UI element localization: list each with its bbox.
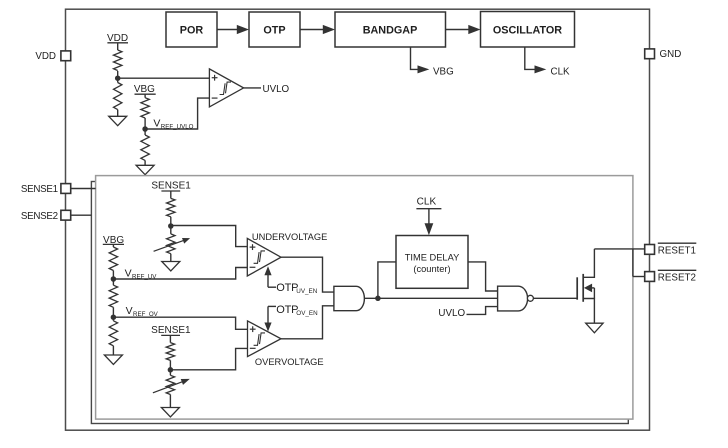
and-gate U4 [334, 286, 364, 310]
node C junction lower divider tap [168, 367, 174, 373]
wire R9 to ground [112, 346, 114, 355]
block OSCILLATOR [481, 12, 575, 48]
wire node C to OVERVOLTAGE comparator minus input [170, 348, 247, 369]
wire R4 to ground [144, 160, 146, 165]
resistor R6 adjustable upper divider [154, 234, 191, 254]
wire Q1 source [583, 299, 594, 324]
label OTP_OV_EN [276, 304, 318, 317]
wire UNDERVOLTAGE output to AND gate [281, 257, 334, 292]
label VREF_UVLO [153, 117, 193, 130]
svg-text:SENSE1: SENSE1 [21, 184, 58, 195]
wire SENSE1 pin to channel box [71, 188, 96, 190]
op-amp U3 OVERVOLTAGE comparator [248, 321, 282, 357]
svg-text:SENSE1: SENSE1 [151, 181, 191, 192]
pin VDD [35, 51, 70, 62]
op-amp U2 UNDERVOLTAGE comparator [247, 238, 281, 276]
wire R3 to node VREF_UVLO [144, 118, 146, 135]
wire arrow CLK into TIME DELAY [425, 209, 434, 236]
svg-text:OTP: OTP [276, 282, 298, 294]
wire VBG label to R3 [144, 94, 146, 98]
svg-text:CLK: CLK [417, 196, 437, 207]
svg-text:UVLO: UVLO [438, 308, 465, 319]
block OTP [249, 12, 300, 47]
wire UVLO to NAND bottom input [467, 307, 498, 315]
svg-text:V: V [126, 305, 133, 317]
back channel box (SENSE2) [91, 182, 628, 424]
label VREF_OV [126, 305, 159, 318]
wire R11 to ground [169, 395, 171, 408]
svg-text:UVLO: UVLO [263, 84, 290, 95]
ground below R6 [162, 262, 180, 271]
wire R8 to node VREF_OV [112, 307, 114, 321]
resistor R7 VBG to VREF_UV [109, 247, 117, 271]
wire VBG label to R7 [112, 244, 114, 247]
svg-text:VBG: VBG [433, 66, 454, 77]
svg-text:VDD: VDD [35, 51, 56, 62]
wire node D to TIME DELAY input [378, 262, 396, 298]
wire R2 to ground [117, 110, 119, 117]
wire VREF_OV to OVERVOLTAGE comparator plus input [113, 317, 247, 329]
op-amp U1 UVLO comparator [209, 69, 243, 107]
node A junction VDD divider [115, 75, 121, 81]
wire RESET1 node down to RESET2 [632, 249, 634, 277]
svg-text:OV_EN: OV_EN [296, 310, 318, 317]
pin SENSE1 [21, 184, 71, 196]
block POR [166, 12, 217, 47]
svg-text:OTP: OTP [263, 24, 285, 36]
node VBG net label (UVLO ref) [134, 84, 156, 95]
IC boundary outer box [66, 9, 650, 430]
wire R5 to node B [170, 217, 172, 234]
pin GND [645, 49, 682, 60]
svg-text:(counter): (counter) [413, 264, 450, 274]
svg-text:UNDERVOLTAGE: UNDERVOLTAGE [252, 232, 327, 242]
pin SENSE2 [21, 210, 71, 222]
svg-text:OSCILLATOR: OSCILLATOR [493, 24, 562, 36]
wire arrow OTP to BANDGAP [300, 25, 335, 34]
resistor R1 VDD divider top [114, 50, 122, 71]
wire Q1 drain [583, 249, 594, 277]
label CLK output [551, 66, 571, 77]
front channel box (SENSE1) [96, 176, 633, 420]
ground below Q1 source [586, 323, 603, 333]
svg-text:UV_EN: UV_EN [296, 288, 317, 295]
pin RESET2 (active low) [645, 270, 697, 283]
wire VDD label to R1 [117, 43, 119, 50]
wire node A to UVLO comparator plus input [118, 77, 210, 79]
resistor R9 VREF_OV to ground [109, 321, 117, 346]
wire arrow BANDGAP to OSCILLATOR [446, 25, 481, 34]
wire NAND output to MOSFET gate [534, 297, 578, 299]
label UVLO input [438, 308, 465, 319]
wire R6 to ground [170, 254, 172, 262]
node VDD net label [107, 33, 128, 44]
svg-text:POR: POR [180, 24, 204, 36]
label VBG output [433, 66, 454, 77]
resistor R4 VREF_UVLO to ground [141, 135, 149, 160]
resistor R8 VREF_UV to VREF_OV [109, 285, 117, 307]
wire arrow OTP_OV_EN into U3 [264, 306, 276, 331]
node SENSE1 net label lower [151, 325, 191, 336]
ground below R9 [104, 355, 122, 364]
wire R1 to node A [117, 71, 119, 83]
svg-text:SENSE1: SENSE1 [151, 325, 191, 336]
resistor R5 SENSE1 upper divider [167, 198, 175, 216]
transistor Q1 NMOS gate bar [576, 277, 578, 299]
block TIME DELAY (counter) [396, 236, 468, 289]
node VREF_OV junction [111, 314, 117, 320]
svg-text:SENSE2: SENSE2 [21, 211, 58, 222]
wire TIME DELAY output to NAND top input [468, 262, 498, 291]
transistor Q1 channel bar [582, 274, 584, 302]
wire SENSE2 pin to back channel box [71, 214, 91, 216]
svg-text:BANDGAP: BANDGAP [363, 24, 418, 36]
svg-text:RESET1: RESET1 [658, 245, 696, 256]
svg-text:V: V [153, 117, 160, 129]
node VREF_UV junction [111, 276, 117, 282]
resistor R3 VBG to VREF_UVLO [141, 98, 149, 118]
wire SENSE1 lower label to R10 [169, 335, 171, 342]
node B junction upper divider tap [168, 223, 174, 229]
block BANDGAP [335, 12, 446, 47]
label UNDERVOLTAGE [252, 232, 327, 242]
svg-text:RESET2: RESET2 [658, 272, 696, 283]
wire AND output to NAND middle input [364, 297, 497, 299]
pin RESET1 (active low) [645, 243, 697, 256]
wire VREF_UV to UNDERVOLTAGE comparator minus input [113, 268, 247, 280]
wire node B to UNDERVOLTAGE comparator plus input [171, 226, 248, 247]
label OTP_UV_EN [276, 282, 317, 295]
node VREF_UVLO junction [142, 126, 148, 132]
wire SENSE1 label to R5 [170, 191, 172, 198]
wire VREF_UVLO to UVLO comparator minus input [145, 98, 209, 129]
svg-text:CLK: CLK [551, 66, 571, 77]
wire arrow OTP_UV_EN into U2 [264, 266, 276, 287]
nand-gate U5 [498, 286, 534, 311]
svg-text:V: V [125, 268, 132, 280]
resistor R11 adjustable lower divider [153, 375, 190, 394]
wire arrow POR to OTP [217, 25, 249, 34]
svg-text:TIME DELAY: TIME DELAY [405, 252, 460, 262]
node SENSE1 net label upper [151, 181, 191, 192]
resistor R2 VDD divider bottom [114, 83, 122, 110]
resistor R10 SENSE1 lower divider [166, 343, 174, 361]
svg-text:OVERVOLTAGE: OVERVOLTAGE [255, 357, 324, 367]
label VREF_UV [125, 268, 158, 281]
svg-text:GND: GND [660, 49, 682, 60]
label CLK above TIME DELAY [416, 196, 441, 208]
wire Q1 body with arrow [584, 284, 595, 299]
wire Q1 drain to RESET1 pin [594, 248, 645, 250]
wire to RESET2 pin [633, 276, 645, 278]
wire R10 to node C [169, 360, 171, 375]
label OVERVOLTAGE [255, 357, 324, 367]
node VBG net label (UV/OV ref) [103, 235, 125, 246]
ground below R2 [109, 116, 127, 125]
label UVLO output [263, 84, 290, 95]
svg-text:VBG: VBG [134, 84, 155, 95]
wire VBG output of BANDGAP [411, 47, 430, 73]
wire OVERVOLTAGE output to AND gate [281, 306, 334, 339]
svg-text:OTP: OTP [276, 304, 298, 316]
wire R7 to node VREF_UV [112, 271, 114, 286]
node D junction AND output [375, 296, 381, 302]
ground below R11 [161, 408, 179, 417]
ground below R4 [136, 165, 154, 174]
wire CLK output of OSCILLATOR [525, 47, 547, 73]
wire UVLO comparator output [244, 87, 261, 89]
